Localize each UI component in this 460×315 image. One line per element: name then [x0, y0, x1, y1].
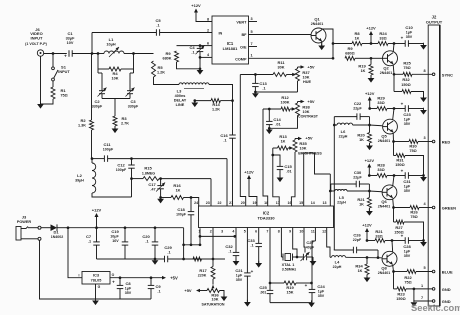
resistor R5 1.2K	[134, 53, 154, 55]
svg-text:7: 7	[250, 42, 252, 46]
svg-text:BLUE: BLUE	[442, 270, 453, 275]
svg-text:C17: C17	[148, 182, 156, 187]
svg-text:C4: C4	[189, 45, 195, 50]
svg-text:+: +	[64, 54, 67, 59]
resistor R30 75 ohm red	[394, 141, 410, 143]
+5V output line	[110, 277, 163, 279]
resistor R13 1K	[278, 146, 289, 150]
resistor R15 1.8MEG	[130, 177, 133, 180]
svg-text:1μF: 1μF	[236, 274, 243, 278]
wire pin 10 to C27 node	[304, 228, 305, 253]
svg-text:IC3: IC3	[93, 273, 100, 278]
svg-text:R31: R31	[396, 158, 404, 163]
svg-text:10K: 10K	[303, 76, 310, 80]
svg-text:R4: R4	[112, 71, 118, 76]
svg-text:O: O	[112, 273, 115, 277]
svg-text:R20: R20	[357, 133, 365, 138]
long wire red node down right side	[333, 117, 335, 250]
inductor L1 10uH peaking	[98, 53, 104, 55]
potentiometer R36 10K SATURATION	[212, 279, 214, 285]
svg-text:8: 8	[207, 18, 209, 22]
svg-text:L2: L2	[77, 173, 82, 178]
svg-text:17: 17	[276, 201, 280, 205]
svg-text:+5V: +5V	[307, 99, 315, 104]
svg-text:100pF: 100pF	[103, 148, 114, 152]
svg-text:C15: C15	[284, 164, 292, 169]
capacitor C31 1uF 35V green	[394, 175, 405, 177]
capacitor C1 33uF	[68, 50, 70, 57]
svg-text:+5V: +5V	[170, 276, 178, 281]
svg-text:35V: 35V	[404, 122, 411, 126]
svg-text:R8: R8	[354, 31, 360, 36]
svg-text:9: 9	[289, 230, 291, 234]
svg-text:R9: R9	[165, 51, 171, 56]
svg-text:8: 8	[423, 69, 425, 73]
svg-text:1K: 1K	[355, 37, 360, 41]
svg-text:R2: R2	[80, 118, 86, 123]
svg-text:Q2: Q2	[383, 66, 389, 71]
svg-text:10K: 10K	[112, 77, 119, 81]
ground below C17	[157, 199, 164, 204]
svg-text:30K: 30K	[278, 66, 285, 70]
ground arrow on filter rail	[152, 260, 159, 265]
svg-text:R24: R24	[379, 31, 387, 36]
capacitor C24 1uF 35V on pin 11	[314, 228, 316, 242]
svg-text:.1: .1	[262, 87, 265, 91]
svg-text:I: I	[79, 274, 80, 278]
svg-text:.1: .1	[223, 139, 226, 143]
svg-text:+5V: +5V	[307, 65, 315, 70]
wire L6 to Q5 base	[370, 124, 383, 127]
J2 pin blue	[432, 270, 435, 273]
svg-text:330pF: 330pF	[92, 105, 103, 109]
svg-text:C21: C21	[235, 268, 243, 273]
wire R1 to ground bus	[41, 99, 54, 104]
svg-text:R17: R17	[199, 268, 207, 273]
svg-text:10μF: 10μF	[110, 235, 119, 239]
resistor R31 150 ohm red	[393, 142, 395, 156]
svg-text:R12: R12	[281, 95, 289, 100]
svg-text:1K: 1K	[358, 269, 363, 273]
ground arrow IC3	[92, 301, 99, 306]
svg-text:35V: 35V	[125, 291, 132, 295]
svg-text:75Ω: 75Ω	[409, 149, 416, 153]
svg-text:R15: R15	[144, 166, 152, 171]
svg-text:5: 5	[250, 30, 252, 34]
pin 5 burst flag wire to Q1	[249, 34, 312, 36]
wire Q5 emitter red output	[392, 133, 394, 142]
svg-text:J3: J3	[22, 215, 27, 220]
svg-text:.1: .1	[167, 251, 170, 255]
svg-text:12: 12	[322, 230, 326, 234]
wire L5 to Q6 base	[369, 190, 382, 193]
ground at gnd rows	[411, 302, 418, 307]
transistor Q5 2N4401 red	[383, 119, 398, 134]
svg-text:22μH: 22μH	[333, 265, 342, 269]
ground below R3	[114, 126, 116, 129]
svg-text:19: 19	[253, 201, 257, 205]
wire pin13 riser and green node	[329, 174, 331, 206]
resistor R22 75 ohm blue	[394, 271, 408, 273]
svg-text:22μF: 22μF	[353, 176, 362, 180]
svg-text:RED: RED	[442, 140, 451, 145]
svg-text:C1: C1	[67, 31, 73, 36]
svg-text:C22: C22	[354, 101, 362, 106]
svg-text:+12V: +12V	[366, 26, 376, 31]
ground after C23	[408, 108, 423, 110]
trimmer capacitor C2 330pF	[97, 69, 99, 73]
wire hue node to IC2 pin 20	[240, 75, 245, 207]
svg-text:R25: R25	[403, 61, 411, 66]
svg-text:35V: 35V	[236, 278, 243, 282]
svg-text:+: +	[305, 283, 308, 288]
svg-text:2: 2	[207, 29, 209, 33]
svg-text:78L05: 78L05	[91, 279, 102, 283]
svg-text:21: 21	[229, 201, 233, 205]
svg-text:7: 7	[421, 296, 423, 300]
svg-text:4: 4	[232, 230, 234, 234]
svg-text:LM1881: LM1881	[223, 46, 238, 51]
wire pin 24 to R16 node	[191, 198, 199, 207]
svg-text:.001: .001	[260, 291, 267, 295]
svg-text:1K: 1K	[176, 189, 181, 193]
svg-text:1N4002: 1N4002	[51, 235, 64, 239]
svg-text:C20: C20	[142, 234, 150, 239]
diode D1 1N4002	[41, 227, 51, 229]
+12V arrow main	[95, 226, 98, 229]
svg-text:22μH: 22μH	[337, 200, 346, 204]
capacitor C25 .001 on pin 7	[269, 228, 271, 291]
svg-text:R21: R21	[375, 229, 383, 234]
trimmer capacitor C4 .1	[199, 46, 201, 49]
pin 3 VERT stub	[249, 21, 258, 23]
svg-text:C23: C23	[403, 112, 411, 117]
svg-text:(1 VOLT P-P): (1 VOLT P-P)	[25, 42, 47, 46]
resistor R28 33 ohm	[369, 175, 377, 177]
svg-text:+12V: +12V	[365, 158, 375, 163]
resistor R19b 1K base bias	[370, 57, 373, 60]
transistor Q6 2N4401 green	[382, 185, 397, 200]
wire riser to sync line	[91, 33, 93, 54]
svg-text:R19: R19	[358, 64, 366, 69]
pin 1 composite sync wire	[249, 57, 334, 59]
trimmer capacitor C27 40pF	[297, 256, 303, 258]
+12V arrow sync channel	[370, 42, 373, 45]
wire R5 to delay line	[154, 77, 180, 85]
svg-text:R27: R27	[395, 225, 403, 230]
svg-text:GREEN: GREEN	[442, 206, 456, 211]
potentiometer R38 10K CONTRAST	[296, 103, 300, 116]
svg-text:C10: C10	[405, 25, 413, 30]
svg-text:HUE: HUE	[303, 80, 311, 84]
svg-text:C8: C8	[125, 281, 131, 286]
svg-text:2N4401: 2N4401	[380, 71, 393, 75]
svg-text:+12V: +12V	[362, 223, 372, 228]
op-amp IC2 TDA3330 color decoder	[199, 206, 334, 228]
ground below R34	[366, 275, 368, 278]
svg-text:+: +	[112, 280, 115, 285]
svg-text:C18: C18	[177, 207, 185, 212]
svg-text:33Ω: 33Ω	[377, 101, 384, 105]
wire IC2 pin 15 staircase to red/green nodes	[304, 153, 331, 206]
svg-text:R9: R9	[347, 46, 353, 51]
svg-text:400ns: 400ns	[175, 94, 186, 98]
svg-text:R29: R29	[377, 96, 385, 101]
svg-text:DELAY: DELAY	[174, 99, 187, 103]
wire Q8 collector	[391, 239, 394, 242]
svg-text:Q1: Q1	[314, 16, 320, 21]
svg-text:2N4401: 2N4401	[311, 22, 324, 26]
svg-text:100μF: 100μF	[176, 213, 186, 217]
svg-text:100K: 100K	[280, 101, 289, 105]
svg-text:22μF: 22μF	[353, 107, 362, 111]
resistor R17 220K	[212, 259, 214, 267]
svg-text:75Ω: 75Ω	[60, 94, 67, 98]
svg-text:23: 23	[206, 201, 210, 205]
resistor R9 680K	[177, 45, 201, 47]
wire J6 ground drop	[40, 56, 42, 104]
svg-text:R35: R35	[299, 141, 307, 146]
svg-text:G: G	[98, 285, 101, 289]
wire +12 rail to IC3 input	[68, 228, 82, 278]
svg-text:1.8MEG: 1.8MEG	[142, 171, 155, 175]
svg-text:39μH: 39μH	[75, 179, 84, 183]
capacitor C10 1uF 35V	[394, 43, 405, 45]
svg-text:33Ω: 33Ω	[377, 168, 384, 172]
svg-text:75Ω: 75Ω	[404, 281, 411, 285]
svg-text:13: 13	[323, 201, 327, 205]
terminal circles J3	[38, 226, 41, 229]
svg-text:1K: 1K	[361, 69, 366, 73]
capacitor C32 .1 on pin 4	[235, 228, 237, 253]
capacitor C26 22pF blue coupling	[334, 249, 354, 251]
svg-text:1.2K: 1.2K	[157, 71, 165, 75]
wire pin 9 to crystal	[293, 228, 297, 258]
svg-text:CONTRAST: CONTRAST	[298, 115, 319, 119]
svg-text:L3: L3	[177, 89, 182, 94]
resistor R24 33 ohm	[378, 42, 388, 46]
svg-text:+12V: +12V	[365, 91, 375, 96]
svg-text:1.2K: 1.2K	[212, 108, 220, 112]
resistor R3 2.7K	[113, 116, 117, 126]
svg-text:C31: C31	[403, 179, 411, 184]
capacitor C13 .1	[254, 75, 256, 84]
wire C16 to IC2 pin 21	[232, 138, 234, 206]
svg-text:+12V: +12V	[92, 208, 102, 213]
svg-text:10K: 10K	[303, 110, 310, 114]
svg-text:L4: L4	[335, 260, 340, 265]
svg-text:35V: 35V	[404, 254, 411, 258]
wire R23 to J2 gnd pin 1	[406, 288, 433, 290]
+12V sub-rail under IC2 to pin 4 bypass	[200, 235, 235, 237]
svg-text:C12: C12	[117, 163, 125, 168]
svg-text:11: 11	[311, 230, 315, 234]
trimmer capacitor C3 330pF	[133, 69, 135, 73]
svg-text:VERT: VERT	[236, 20, 247, 24]
svg-text:R28: R28	[377, 163, 385, 168]
wire Q2 collector	[393, 42, 396, 45]
wire R15 line to IC2 pin 23	[210, 179, 212, 206]
svg-text:R3: R3	[121, 116, 127, 121]
capacitor C7 .1	[96, 228, 98, 242]
svg-text:INPUT: INPUT	[58, 70, 70, 74]
svg-text:R1: R1	[60, 88, 66, 93]
svg-text:1μF: 1μF	[318, 290, 325, 294]
transistor Q1 2N4401	[311, 28, 326, 43]
resistor R19 15K	[269, 282, 272, 285]
connector J6 video input	[37, 50, 43, 56]
svg-text:2N4401: 2N4401	[378, 139, 391, 143]
wire rail branch down to saturation row	[183, 245, 185, 259]
svg-text:C13: C13	[259, 81, 267, 86]
resistor R29 33 ohm	[370, 108, 377, 110]
+12V arrow feeding IC2 pin 19	[247, 175, 251, 179]
resistor R23 150 ohm blue	[393, 272, 395, 289]
ground below C15	[277, 178, 284, 183]
svg-text:IN: IN	[219, 31, 223, 35]
capacitor C23 1uF 35V red	[394, 108, 405, 110]
svg-text:20: 20	[241, 201, 245, 205]
svg-text:+5V: +5V	[184, 288, 192, 293]
J2 pin sync	[432, 73, 435, 76]
svg-text:1: 1	[421, 284, 423, 288]
resistor R9b 680 ohm	[345, 56, 355, 60]
wire J3 return to ground bus	[40, 240, 96, 299]
resistor R32 150 ohm	[393, 74, 395, 91]
potentiometer R37 10K HUE	[296, 69, 300, 82]
resistor R8 1K	[333, 43, 352, 45]
pin 6 stub	[200, 45, 212, 47]
svg-text:6: 6	[255, 230, 257, 234]
svg-text:10: 10	[299, 230, 303, 234]
ground below R21	[368, 208, 370, 211]
+12V arrow at IC1	[194, 9, 198, 13]
wire pin 12 to blue channel	[327, 228, 330, 258]
wire pin 2 to saturation node	[212, 228, 214, 260]
ground below C14	[266, 130, 273, 135]
capacitor C29 .1 series	[164, 256, 166, 263]
svg-text:C7: C7	[86, 234, 92, 239]
svg-text:+12V: +12V	[191, 3, 201, 8]
svg-text:1.3K: 1.3K	[78, 124, 86, 128]
capacitor C28 1uF 35V blue	[392, 240, 405, 242]
svg-text:1K: 1K	[359, 138, 364, 142]
ground below R20	[369, 143, 371, 146]
svg-text:O/E: O/E	[240, 46, 247, 50]
svg-text:10μH: 10μH	[106, 43, 116, 47]
svg-text:C5: C5	[155, 18, 161, 23]
svg-text:40pF: 40pF	[306, 246, 315, 250]
resistor R4 10K	[97, 54, 99, 70]
wire L2 bottom	[92, 193, 132, 197]
ground below C21	[244, 302, 251, 307]
svg-text:C33: C33	[247, 238, 255, 243]
svg-text:C16: C16	[220, 133, 228, 138]
svg-text:35V: 35V	[406, 35, 413, 39]
svg-text:5: 5	[244, 230, 246, 234]
svg-text:.01: .01	[286, 170, 291, 174]
wire video to IC1 input	[92, 32, 156, 34]
wire C2 C3 junction	[102, 98, 130, 100]
resistor R14 1.2K termination	[211, 99, 221, 103]
svg-text:INPUT: INPUT	[31, 35, 44, 40]
svg-text:C19: C19	[111, 229, 119, 234]
svg-text:+12V: +12V	[244, 170, 254, 175]
svg-text:R16: R16	[173, 183, 181, 188]
svg-text:C2: C2	[94, 99, 100, 104]
svg-text:S1: S1	[61, 64, 67, 69]
svg-text:7: 7	[266, 230, 268, 234]
svg-text:+: +	[251, 269, 254, 274]
wire contrast node to IC2 pin 18	[263, 109, 268, 206]
svg-text:BRIGHTNESS: BRIGHTNESS	[298, 152, 322, 156]
svg-text:L5: L5	[339, 195, 344, 200]
svg-text:3: 3	[221, 230, 223, 234]
svg-text:R34: R34	[355, 264, 363, 269]
svg-text:R13: R13	[279, 134, 287, 139]
svg-text:35V: 35V	[318, 294, 325, 298]
svg-text:.01: .01	[275, 123, 280, 127]
inductor L4 22uH blue peaking	[330, 256, 332, 258]
svg-text:2N4401: 2N4401	[378, 271, 391, 275]
wire IC2 pin 1	[199, 228, 201, 245]
ground bus at C8 C9	[96, 298, 152, 300]
J2 pin green	[432, 206, 435, 209]
ground below C4	[199, 67, 202, 70]
capacitor C21 1uF 35V on pin 5	[246, 228, 248, 273]
svg-text:1μF: 1μF	[125, 287, 132, 291]
wire R31 to shared ground	[405, 156, 424, 176]
svg-text:.1: .1	[156, 24, 159, 28]
svg-text:2: 2	[210, 230, 212, 234]
svg-text:.1: .1	[157, 290, 160, 294]
svg-text:+: +	[401, 169, 404, 174]
svg-text:680Ω: 680Ω	[345, 52, 354, 56]
capacitor C9 .1	[150, 276, 153, 279]
capacitor C22 22uF bypass	[334, 116, 357, 118]
ground at J6	[37, 104, 44, 109]
svg-text:C32: C32	[225, 244, 233, 249]
pin 4 ground stub	[200, 56, 212, 58]
connector J3 power jack	[16, 227, 21, 241]
inductor L2 39uH	[91, 157, 94, 160]
svg-text:150Ω: 150Ω	[395, 163, 404, 167]
wire brightness node to IC2 pin 17	[273, 148, 279, 206]
J2 pin gnd2	[432, 300, 435, 303]
svg-text:10K: 10K	[300, 147, 307, 151]
svg-text:C9: C9	[155, 284, 161, 289]
svg-text:POWER: POWER	[17, 220, 32, 224]
svg-text:C24: C24	[317, 284, 325, 289]
svg-text:L1: L1	[109, 37, 114, 42]
svg-text:33Ω: 33Ω	[375, 235, 382, 239]
resistor R34 1K blue base	[366, 258, 368, 265]
ground after C27	[312, 257, 314, 261]
svg-text:.47: .47	[150, 188, 155, 192]
svg-text:.1: .1	[145, 240, 148, 244]
voltage regulator IC3 78L05	[82, 272, 110, 285]
svg-text:16V: 16V	[112, 239, 119, 243]
svg-text:TDA3330: TDA3330	[257, 216, 275, 221]
wire Q8 emitter blue output	[392, 265, 395, 272]
svg-text:R22: R22	[404, 275, 412, 280]
capacitor C19 10uF	[124, 226, 127, 229]
svg-text:1: 1	[250, 54, 252, 58]
svg-text:150Ω: 150Ω	[401, 83, 410, 87]
capacitor C12 100pF	[131, 159, 133, 165]
connector J2 output	[428, 25, 440, 306]
svg-text:R23: R23	[397, 292, 405, 297]
